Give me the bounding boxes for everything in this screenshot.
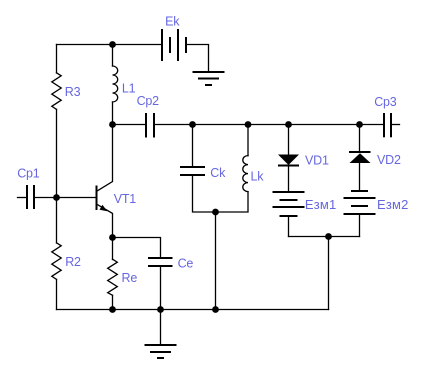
battery Ek — [162, 29, 186, 61]
wire Ezm1 bottom — [288, 217, 290, 237]
svg-text:VD1: VD1 — [305, 153, 329, 167]
node Lk top junction — [245, 121, 252, 128]
resistor R3 — [52, 73, 61, 110]
wire bottom horizontal — [57, 309, 329, 311]
ground (bottom) — [145, 345, 177, 358]
node Ck top junction — [189, 121, 196, 128]
wire Lk bottom — [216, 192, 249, 212]
node Ck/Lk bottom junction — [212, 209, 219, 216]
wire Lk top — [247, 125, 249, 156]
capacitor Cp2 — [146, 113, 154, 138]
wire Re bottom — [112, 295, 114, 309]
inductor Lk — [243, 156, 248, 192]
svg-text:Cp3: Cp3 — [374, 95, 397, 109]
wire VD2 to Ezm2 — [359, 163, 361, 190]
svg-text:Езм1: Езм1 — [305, 197, 337, 212]
svg-text:Lk: Lk — [251, 169, 265, 183]
capacitor Ck — [180, 167, 205, 175]
transistor VT1 — [97, 125, 113, 238]
node Ce bottom junction — [157, 306, 164, 313]
capacitor Cp3 — [384, 113, 391, 137]
svg-text:L1: L1 — [122, 82, 136, 96]
capacitor Ce — [148, 258, 173, 266]
svg-text:Ck: Ck — [210, 166, 226, 180]
battery Ezm1 — [273, 192, 305, 216]
wire VD1 to Ezm1 — [288, 167, 290, 192]
wire left vertical upper — [56, 45, 58, 74]
ground (top right) — [193, 72, 225, 85]
wire Ce bottom — [160, 267, 162, 310]
wire Ck top — [192, 125, 194, 167]
diode VD1 — [278, 155, 299, 166]
wire L1 bottom — [112, 102, 114, 125]
node VD1 top junction — [285, 121, 292, 128]
svg-text:Re: Re — [122, 271, 138, 285]
wire VD1 top — [288, 125, 290, 155]
resistor R2 — [52, 243, 61, 280]
node top junction — [109, 41, 116, 48]
svg-text:R2: R2 — [65, 255, 81, 269]
wire left vertical middle — [56, 109, 58, 243]
wire tank to bottom — [215, 212, 217, 310]
node Ezm join junction — [325, 233, 332, 240]
wire top horizontal — [57, 44, 162, 46]
svg-text:VD2: VD2 — [377, 153, 401, 167]
diode VD2 — [349, 152, 371, 163]
wire Ck bottom — [193, 176, 216, 212]
wire Re top — [112, 238, 114, 260]
node emitter junction — [109, 234, 116, 241]
wire emitter to Ce — [113, 238, 161, 258]
wire battery right to ground — [187, 45, 209, 72]
wire Ezm join to bottom — [328, 237, 330, 310]
svg-text:Ce: Ce — [178, 257, 194, 271]
wire base — [57, 197, 96, 199]
svg-text:Езм2: Езм2 — [377, 197, 409, 212]
wire Cp3 output stub — [392, 124, 400, 126]
wire bus main segment — [155, 124, 383, 126]
svg-text:VT1: VT1 — [114, 192, 137, 206]
capacitor Cp1 — [18, 185, 57, 209]
node Re bottom junction — [109, 306, 116, 313]
svg-text:R3: R3 — [65, 85, 81, 99]
node Cp3/VD2 junction — [356, 121, 363, 128]
wire Ezm join horizontal — [289, 236, 360, 238]
node L1/collector/bus junction — [109, 121, 116, 128]
wire left vertical lower — [56, 279, 58, 309]
wire L1 top — [112, 45, 114, 67]
svg-text:Cp2: Cp2 — [137, 94, 160, 108]
svg-text:Ek: Ek — [165, 14, 180, 28]
node tank bottom junction — [212, 306, 219, 313]
svg-text:Cp1: Cp1 — [17, 167, 40, 181]
battery Ezm2 — [344, 191, 376, 214]
resistor Re — [108, 259, 118, 295]
wire Ezm2 bottom — [359, 215, 361, 237]
wire VD2 top — [359, 125, 361, 152]
wire bus left segment — [113, 124, 146, 126]
inductor L1 — [113, 66, 118, 102]
node base junction — [53, 194, 60, 201]
wire ground stem (bottom) — [160, 310, 162, 345]
